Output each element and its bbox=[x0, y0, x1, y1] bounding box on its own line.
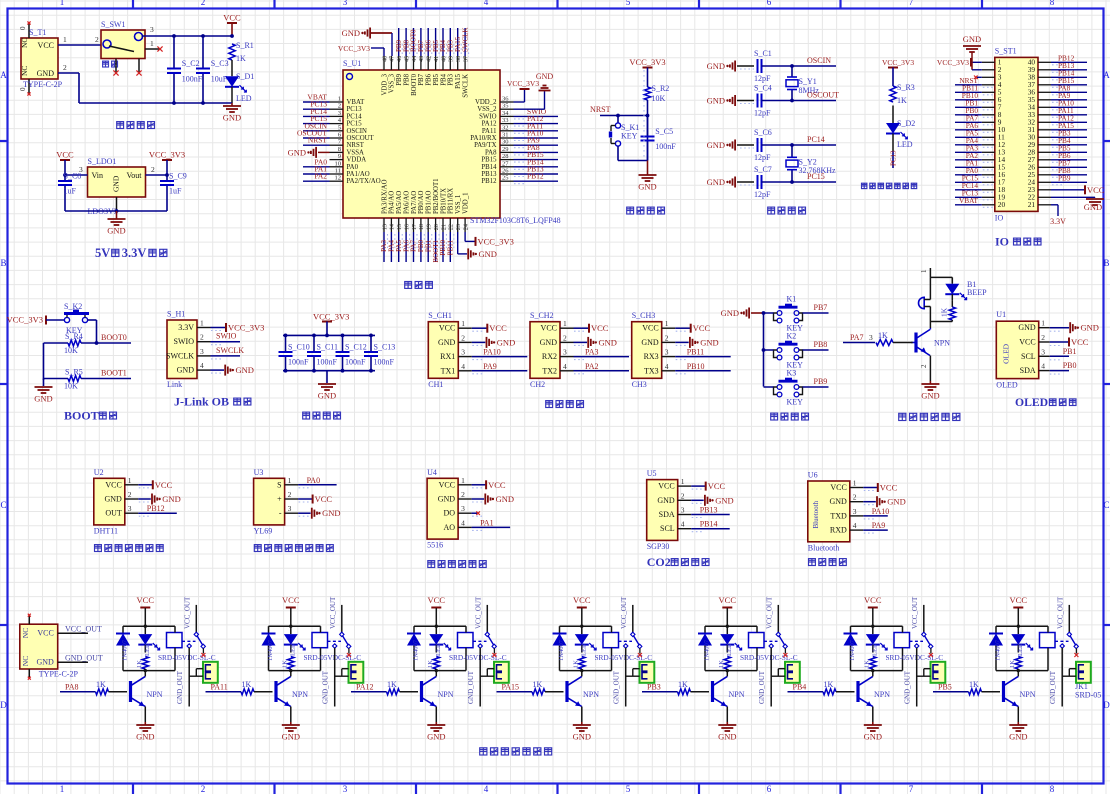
svg-text:15: 15 bbox=[396, 224, 403, 230]
svg-text:VSS_3: VSS_3 bbox=[389, 73, 396, 93]
svg-text:PA15: PA15 bbox=[502, 683, 520, 692]
svg-text:GND_OUT: GND_OUT bbox=[321, 670, 329, 704]
svg-text:1K: 1K bbox=[940, 307, 949, 317]
svg-text:VCC_OUT: VCC_OUT bbox=[475, 596, 483, 629]
svg-text:D: D bbox=[0, 700, 7, 710]
svg-text:PB12: PB12 bbox=[147, 504, 165, 513]
svg-text:VCC_3V3: VCC_3V3 bbox=[507, 79, 539, 88]
svg-text:1K: 1K bbox=[533, 680, 543, 689]
svg-text:GND: GND bbox=[282, 732, 300, 742]
svg-text:VCC: VCC bbox=[719, 595, 737, 605]
svg-text:PA7: PA7 bbox=[850, 333, 864, 342]
svg-text:18: 18 bbox=[418, 224, 425, 230]
svg-text:4: 4 bbox=[563, 362, 567, 371]
svg-text:GND: GND bbox=[573, 732, 591, 742]
svg-text:PA8: PA8 bbox=[485, 149, 497, 156]
svg-text:SWCLK: SWCLK bbox=[461, 28, 469, 53]
svg-text:2: 2 bbox=[920, 364, 928, 368]
svg-text:PA12: PA12 bbox=[482, 121, 497, 128]
svg-text:VDD_3: VDD_3 bbox=[381, 73, 388, 95]
svg-text:3: 3 bbox=[563, 348, 567, 357]
svg-text:10K: 10K bbox=[652, 94, 666, 103]
svg-text:2: 2 bbox=[853, 493, 857, 502]
svg-text:BOOT0: BOOT0 bbox=[101, 333, 127, 342]
svg-text:SRD-05: SRD-05 bbox=[1075, 691, 1101, 700]
svg-text:GND: GND bbox=[438, 338, 456, 347]
svg-text:PB8: PB8 bbox=[814, 340, 828, 349]
svg-text:1K: 1K bbox=[878, 331, 888, 340]
svg-text:K1: K1 bbox=[787, 295, 797, 304]
svg-text:NRST: NRST bbox=[308, 136, 328, 145]
svg-text:2: 2 bbox=[128, 490, 132, 499]
svg-text:S_C5: S_C5 bbox=[655, 127, 673, 136]
svg-text:1: 1 bbox=[853, 479, 857, 488]
svg-text:VBAT: VBAT bbox=[959, 196, 979, 205]
svg-text:1: 1 bbox=[920, 269, 928, 273]
svg-text:GND: GND bbox=[718, 732, 736, 742]
svg-text:NC: NC bbox=[21, 628, 30, 638]
svg-text:PA1/AO: PA1/AO bbox=[347, 171, 370, 178]
svg-text:3: 3 bbox=[150, 25, 154, 34]
svg-text:U6: U6 bbox=[808, 471, 818, 480]
svg-text:2: 2 bbox=[461, 490, 465, 499]
svg-text:4: 4 bbox=[665, 362, 669, 371]
svg-text:S_C2: S_C2 bbox=[182, 59, 200, 68]
svg-text:NC: NC bbox=[20, 66, 29, 76]
svg-text:S_T1: S_T1 bbox=[29, 28, 46, 37]
svg-text:100nF: 100nF bbox=[182, 75, 203, 84]
svg-text:3: 3 bbox=[853, 507, 857, 516]
svg-text:5: 5 bbox=[338, 124, 341, 131]
svg-text:GND: GND bbox=[864, 732, 882, 742]
svg-text:3.3V: 3.3V bbox=[178, 323, 194, 332]
svg-text:GND: GND bbox=[707, 61, 725, 71]
svg-text:OLED: OLED bbox=[1001, 343, 1010, 364]
svg-text:VBAT: VBAT bbox=[347, 99, 366, 106]
svg-text:1K: 1K bbox=[1009, 660, 1016, 668]
svg-text:3: 3 bbox=[461, 348, 465, 357]
svg-text:VCC: VCC bbox=[658, 482, 674, 491]
svg-text:PC14: PC14 bbox=[807, 135, 825, 144]
svg-text:PB12: PB12 bbox=[481, 178, 497, 185]
svg-text:7: 7 bbox=[909, 0, 914, 7]
svg-text:PB0/AO: PB0/AO bbox=[418, 190, 425, 214]
svg-text:S_CH1: S_CH1 bbox=[428, 311, 452, 320]
svg-text:1uF: 1uF bbox=[64, 187, 77, 196]
svg-text:Bluetooth: Bluetooth bbox=[808, 543, 840, 552]
svg-text:1K: 1K bbox=[897, 96, 907, 105]
svg-text:22: 22 bbox=[448, 224, 455, 230]
svg-text:TX3: TX3 bbox=[644, 366, 659, 375]
svg-text:GND_OUT: GND_OUT bbox=[467, 670, 475, 704]
svg-text:PB4: PB4 bbox=[793, 683, 807, 692]
svg-text:PB9: PB9 bbox=[396, 73, 403, 85]
svg-text:IO: IO bbox=[995, 235, 1009, 249]
svg-text:3: 3 bbox=[128, 504, 132, 513]
svg-text:PA9: PA9 bbox=[483, 362, 497, 371]
svg-text:PB11: PB11 bbox=[687, 348, 705, 357]
svg-text:+: + bbox=[277, 495, 282, 504]
svg-text:GND: GND bbox=[829, 497, 847, 506]
svg-text:SRD-05VDC-SL-C: SRD-05VDC-SL-C bbox=[595, 653, 653, 662]
svg-text:14: 14 bbox=[389, 224, 396, 230]
svg-text:Link: Link bbox=[167, 380, 182, 389]
svg-text:S: S bbox=[277, 480, 281, 489]
svg-text:32: 32 bbox=[502, 124, 509, 131]
svg-text:100nF: 100nF bbox=[374, 358, 395, 367]
svg-text:GND: GND bbox=[104, 495, 122, 504]
svg-text:TYPE-C-2P: TYPE-C-2P bbox=[39, 670, 79, 679]
svg-text:S_SW1: S_SW1 bbox=[101, 20, 125, 29]
svg-text:OSCIN: OSCIN bbox=[347, 128, 367, 135]
svg-text:GND: GND bbox=[162, 494, 180, 504]
svg-text:PB11/RX: PB11/RX bbox=[448, 188, 455, 214]
svg-text:S_R1: S_R1 bbox=[236, 41, 254, 50]
svg-text:LED: LED bbox=[144, 643, 151, 656]
svg-text:PB2/BOOT1: PB2/BOOT1 bbox=[433, 178, 440, 214]
svg-text:PB6: PB6 bbox=[426, 73, 433, 85]
svg-text:LED: LED bbox=[236, 94, 252, 103]
svg-text:VCC: VCC bbox=[591, 323, 609, 333]
svg-text:PC14: PC14 bbox=[347, 113, 363, 120]
svg-text:SDA: SDA bbox=[659, 510, 675, 519]
svg-text:20: 20 bbox=[433, 224, 440, 230]
svg-text:VCC_3V3: VCC_3V3 bbox=[338, 44, 370, 53]
svg-text:GND_OUT: GND_OUT bbox=[1049, 670, 1057, 704]
svg-text:SWIO: SWIO bbox=[216, 332, 237, 341]
svg-text:PB14: PB14 bbox=[481, 164, 497, 171]
svg-text:VCC: VCC bbox=[282, 595, 300, 605]
svg-text:4: 4 bbox=[1041, 362, 1045, 371]
svg-text:GND: GND bbox=[715, 495, 733, 505]
svg-text:3: 3 bbox=[461, 504, 465, 513]
svg-text:LED: LED bbox=[580, 643, 587, 656]
svg-text:SDA: SDA bbox=[1020, 366, 1036, 375]
svg-text:1: 1 bbox=[1041, 319, 1045, 328]
svg-text:GND: GND bbox=[342, 28, 360, 38]
svg-text:4: 4 bbox=[461, 362, 465, 371]
svg-text:NRST: NRST bbox=[347, 142, 365, 149]
svg-text:GND_OUT: GND_OUT bbox=[612, 670, 620, 704]
svg-text:1: 1 bbox=[200, 319, 204, 328]
svg-text:1: 1 bbox=[563, 319, 567, 328]
svg-text:28: 28 bbox=[502, 153, 509, 160]
svg-text:VSS_1: VSS_1 bbox=[455, 195, 462, 214]
svg-text:PB9: PB9 bbox=[814, 377, 828, 386]
svg-text:27: 27 bbox=[502, 160, 509, 167]
svg-text:K2: K2 bbox=[787, 332, 797, 341]
svg-text:1uF: 1uF bbox=[169, 187, 182, 196]
svg-text:1N4007: 1N4007 bbox=[122, 639, 129, 661]
svg-text:VCC: VCC bbox=[541, 324, 557, 333]
svg-text:VCC_OUT: VCC_OUT bbox=[184, 596, 192, 629]
svg-text:100nF: 100nF bbox=[288, 358, 309, 367]
svg-text:VCC_3V3: VCC_3V3 bbox=[7, 315, 43, 325]
svg-text:J-Link OB: J-Link OB bbox=[174, 395, 229, 409]
svg-text:8: 8 bbox=[1050, 0, 1055, 7]
svg-text:1N4007: 1N4007 bbox=[995, 639, 1002, 661]
svg-text:VCC: VCC bbox=[642, 324, 658, 333]
svg-text:VCC_OUT: VCC_OUT bbox=[766, 596, 774, 629]
svg-text:PB12: PB12 bbox=[527, 172, 544, 181]
svg-text:3: 3 bbox=[1041, 347, 1045, 356]
svg-text:NPN: NPN bbox=[1020, 690, 1036, 699]
svg-text:VCC: VCC bbox=[1019, 338, 1035, 347]
svg-text:2: 2 bbox=[461, 333, 465, 342]
svg-text:STM32F103C8T6_LQFP48: STM32F103C8T6_LQFP48 bbox=[470, 216, 561, 225]
svg-text:1N4007: 1N4007 bbox=[413, 639, 420, 661]
svg-text:GND: GND bbox=[136, 732, 154, 742]
svg-text:KEY: KEY bbox=[787, 398, 804, 407]
svg-text:24: 24 bbox=[462, 224, 469, 230]
svg-text:GND: GND bbox=[479, 249, 497, 259]
svg-text:GND: GND bbox=[700, 337, 718, 347]
svg-text:GND_OUT: GND_OUT bbox=[758, 670, 766, 704]
svg-text:SWCLK: SWCLK bbox=[462, 74, 469, 98]
svg-text:VCC_3V3: VCC_3V3 bbox=[478, 236, 514, 246]
svg-text:VCC: VCC bbox=[573, 595, 591, 605]
svg-text:PB0: PB0 bbox=[1063, 361, 1077, 370]
svg-text:1K: 1K bbox=[236, 54, 246, 63]
svg-text:13: 13 bbox=[381, 224, 388, 230]
svg-text:U2: U2 bbox=[94, 468, 104, 477]
svg-text:SWCLK: SWCLK bbox=[216, 346, 244, 355]
svg-text:PA6/AO: PA6/AO bbox=[403, 191, 410, 214]
svg-text:1: 1 bbox=[338, 96, 341, 103]
svg-text:BOOT0: BOOT0 bbox=[411, 73, 418, 96]
svg-text:-: - bbox=[279, 509, 282, 518]
svg-text:2: 2 bbox=[665, 333, 669, 342]
svg-text:GND: GND bbox=[638, 182, 656, 192]
svg-text:PB7: PB7 bbox=[814, 303, 828, 312]
svg-text:1: 1 bbox=[461, 476, 465, 485]
svg-text:1K: 1K bbox=[678, 680, 688, 689]
svg-text:KEY: KEY bbox=[621, 132, 638, 141]
svg-text:1N4007: 1N4007 bbox=[849, 639, 856, 661]
svg-text:48: 48 bbox=[381, 56, 388, 62]
svg-text:1: 1 bbox=[63, 35, 67, 44]
svg-text:VCC_3V3: VCC_3V3 bbox=[882, 58, 914, 67]
svg-text:OLED: OLED bbox=[996, 381, 1018, 390]
svg-text:PA10: PA10 bbox=[483, 348, 501, 357]
svg-text:30: 30 bbox=[502, 139, 509, 146]
svg-text:OLED: OLED bbox=[1015, 396, 1048, 409]
svg-text:S_C4: S_C4 bbox=[754, 84, 772, 93]
svg-text:PA9: PA9 bbox=[872, 521, 886, 530]
svg-text:PA0: PA0 bbox=[347, 164, 359, 171]
svg-text:3: 3 bbox=[681, 506, 685, 515]
svg-text:SRD-05VDC-SL-C: SRD-05VDC-SL-C bbox=[449, 653, 507, 662]
svg-text:C: C bbox=[1103, 500, 1109, 510]
svg-text:1: 1 bbox=[288, 476, 292, 485]
svg-text:U4: U4 bbox=[427, 468, 437, 477]
svg-text:S_D2: S_D2 bbox=[897, 119, 915, 128]
svg-text:1K: 1K bbox=[387, 680, 397, 689]
svg-text:9: 9 bbox=[338, 153, 341, 160]
svg-text:VCC: VCC bbox=[488, 480, 506, 490]
svg-text:GND: GND bbox=[921, 391, 939, 401]
svg-text:VCC: VCC bbox=[38, 41, 54, 50]
svg-text:20: 20 bbox=[998, 200, 1006, 209]
svg-text:GND: GND bbox=[1081, 323, 1099, 333]
svg-text:GND: GND bbox=[318, 391, 336, 401]
svg-text:IO: IO bbox=[995, 213, 1004, 222]
svg-text:26: 26 bbox=[502, 168, 509, 175]
svg-text:6: 6 bbox=[767, 0, 772, 7]
svg-text:GND: GND bbox=[438, 495, 456, 504]
svg-text:3.3V: 3.3V bbox=[122, 246, 147, 260]
svg-text:B: B bbox=[1103, 258, 1109, 268]
svg-text:2: 2 bbox=[201, 0, 206, 7]
svg-text:PA0: PA0 bbox=[307, 476, 321, 485]
svg-text:S_C12: S_C12 bbox=[345, 343, 367, 352]
svg-text:K3: K3 bbox=[787, 369, 797, 378]
svg-text:PB13: PB13 bbox=[700, 506, 718, 515]
svg-text:PC15: PC15 bbox=[807, 172, 825, 181]
svg-text:VCC: VCC bbox=[1087, 185, 1105, 195]
svg-text:D: D bbox=[1103, 700, 1110, 710]
svg-text:1N4007: 1N4007 bbox=[267, 639, 274, 661]
svg-text:1: 1 bbox=[681, 477, 685, 486]
svg-text:RXD: RXD bbox=[830, 526, 847, 535]
svg-text:10uF: 10uF bbox=[211, 75, 228, 84]
svg-text:PA2: PA2 bbox=[585, 362, 599, 371]
svg-text:VCC: VCC bbox=[137, 595, 155, 605]
svg-text:GND: GND bbox=[496, 494, 514, 504]
svg-text:GND: GND bbox=[236, 365, 254, 375]
svg-text:1N4007: 1N4007 bbox=[558, 639, 565, 661]
svg-text:1K: 1K bbox=[136, 660, 143, 668]
svg-text:PA8: PA8 bbox=[65, 683, 79, 692]
svg-text:100nF: 100nF bbox=[345, 358, 366, 367]
svg-text:GND: GND bbox=[1084, 202, 1102, 212]
svg-text:VCC: VCC bbox=[155, 480, 173, 490]
svg-text:2: 2 bbox=[1041, 333, 1045, 342]
svg-text:PC13: PC13 bbox=[890, 150, 898, 166]
svg-text:34: 34 bbox=[502, 110, 509, 117]
svg-text:2: 2 bbox=[151, 165, 155, 174]
svg-text:LED: LED bbox=[435, 643, 442, 656]
svg-text:PC13: PC13 bbox=[347, 106, 363, 113]
svg-text:GND: GND bbox=[963, 34, 981, 44]
svg-text:PB3: PB3 bbox=[448, 73, 455, 85]
svg-text:VCC: VCC bbox=[1071, 337, 1089, 347]
svg-text:1K: 1K bbox=[863, 660, 870, 668]
svg-text:1K: 1K bbox=[572, 660, 579, 668]
svg-text:S_C9: S_C9 bbox=[169, 172, 187, 181]
svg-text:GND: GND bbox=[887, 497, 905, 507]
svg-text:10K: 10K bbox=[64, 382, 78, 391]
svg-text:GND: GND bbox=[540, 338, 558, 347]
svg-text:2: 2 bbox=[63, 63, 67, 72]
svg-text:PB7: PB7 bbox=[418, 73, 425, 85]
svg-text:4: 4 bbox=[681, 520, 685, 529]
svg-text:29: 29 bbox=[502, 146, 509, 153]
svg-text:VCC: VCC bbox=[830, 483, 846, 492]
svg-text:PA12: PA12 bbox=[356, 683, 374, 692]
svg-text:SWIO: SWIO bbox=[174, 337, 195, 346]
svg-text:S_R4: S_R4 bbox=[65, 332, 83, 341]
svg-text:S_H1: S_H1 bbox=[167, 310, 185, 319]
svg-text:2: 2 bbox=[201, 784, 206, 794]
svg-text:5: 5 bbox=[626, 0, 631, 7]
svg-text:S_C13: S_C13 bbox=[374, 343, 396, 352]
svg-text:VCC: VCC bbox=[223, 13, 241, 23]
svg-text:3: 3 bbox=[338, 110, 341, 117]
svg-text:S_C11: S_C11 bbox=[317, 343, 339, 352]
svg-text:GND: GND bbox=[37, 69, 55, 78]
svg-text:GND: GND bbox=[427, 732, 445, 742]
svg-text:VCC_OUT: VCC_OUT bbox=[911, 596, 919, 629]
svg-text:GND: GND bbox=[536, 72, 554, 81]
svg-text:3: 3 bbox=[288, 504, 292, 513]
svg-text:S_ST1: S_ST1 bbox=[995, 46, 1017, 55]
svg-text:VCC: VCC bbox=[315, 494, 333, 504]
svg-text:PA10: PA10 bbox=[872, 507, 890, 516]
svg-text:31: 31 bbox=[502, 132, 509, 139]
svg-text:GND: GND bbox=[497, 337, 515, 347]
svg-text:3: 3 bbox=[343, 0, 348, 7]
svg-text:LED: LED bbox=[897, 140, 913, 149]
svg-text:SRD-05VDC-SL-C: SRD-05VDC-SL-C bbox=[304, 653, 362, 662]
svg-text:S_R5: S_R5 bbox=[65, 368, 83, 377]
svg-text:SCL: SCL bbox=[1021, 352, 1036, 361]
svg-text:GND: GND bbox=[34, 394, 52, 404]
svg-text:OSCOUT: OSCOUT bbox=[807, 91, 839, 100]
svg-text:PB8: PB8 bbox=[403, 73, 410, 85]
svg-text:1: 1 bbox=[128, 476, 132, 485]
svg-text:CO2: CO2 bbox=[647, 555, 671, 569]
svg-text:PA5/AO: PA5/AO bbox=[396, 191, 403, 214]
svg-text:S_C10: S_C10 bbox=[288, 343, 310, 352]
svg-text:PB3: PB3 bbox=[647, 683, 661, 692]
svg-text:PA15: PA15 bbox=[455, 73, 462, 88]
svg-text:47: 47 bbox=[389, 56, 396, 62]
svg-text:PB11: PB11 bbox=[447, 240, 455, 256]
svg-text:VDD_1: VDD_1 bbox=[462, 192, 469, 214]
svg-text:NPN: NPN bbox=[438, 690, 454, 699]
svg-text:GND: GND bbox=[707, 96, 725, 106]
svg-text:12pF: 12pF bbox=[754, 153, 771, 162]
svg-text:S_C1: S_C1 bbox=[754, 49, 772, 58]
svg-text:16: 16 bbox=[403, 224, 410, 230]
svg-text:23: 23 bbox=[455, 224, 462, 230]
svg-text:SRD-05VDC-SL-C: SRD-05VDC-SL-C bbox=[158, 653, 216, 662]
svg-text:VDDA: VDDA bbox=[347, 157, 367, 164]
svg-text:GND: GND bbox=[322, 508, 340, 518]
svg-text:12pF: 12pF bbox=[754, 109, 771, 118]
svg-text:2: 2 bbox=[95, 35, 99, 44]
svg-text:3: 3 bbox=[869, 333, 873, 342]
svg-text:PA4/AO: PA4/AO bbox=[389, 191, 396, 214]
svg-text:S_C8: S_C8 bbox=[64, 172, 82, 181]
svg-text:Vout: Vout bbox=[127, 171, 143, 180]
svg-text:S_CH2: S_CH2 bbox=[530, 311, 554, 320]
svg-text:A: A bbox=[0, 70, 7, 80]
svg-text:GND_OUT: GND_OUT bbox=[176, 670, 184, 704]
svg-text:S_U1: S_U1 bbox=[343, 59, 361, 68]
svg-text:S_CH3: S_CH3 bbox=[632, 311, 656, 320]
svg-text:2: 2 bbox=[338, 103, 341, 110]
svg-text:U1: U1 bbox=[996, 310, 1006, 319]
svg-text:S_C6: S_C6 bbox=[754, 128, 772, 137]
svg-text:PC15: PC15 bbox=[347, 121, 363, 128]
svg-text:6: 6 bbox=[767, 784, 772, 794]
svg-text:4: 4 bbox=[461, 518, 465, 527]
svg-text:Vin: Vin bbox=[92, 171, 104, 180]
svg-text:VCC_3V3: VCC_3V3 bbox=[937, 58, 969, 67]
svg-text:PB10/TX: PB10/TX bbox=[440, 188, 447, 214]
